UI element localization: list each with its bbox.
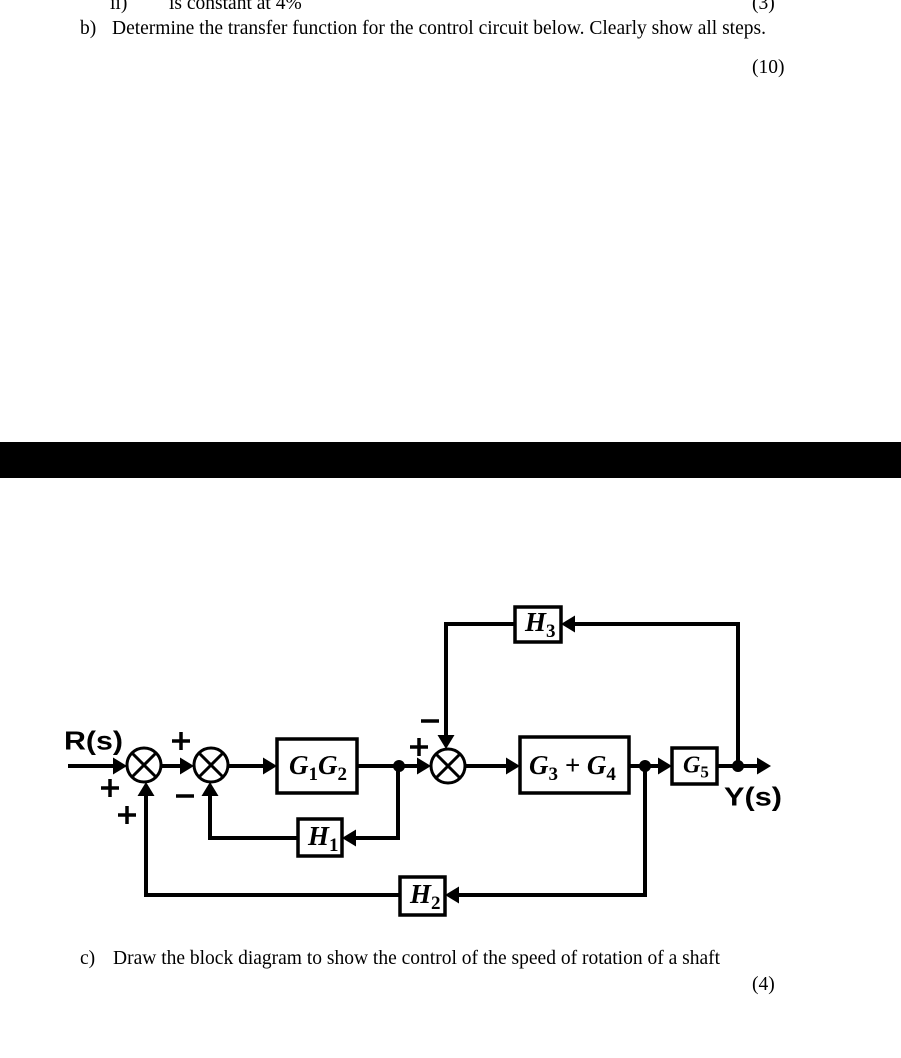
svg-text:Y(s): Y(s) (724, 782, 782, 812)
svg-text:R(s): R(s) (64, 726, 123, 756)
svg-text:G3 + G4: G3 + G4 (529, 750, 616, 785)
